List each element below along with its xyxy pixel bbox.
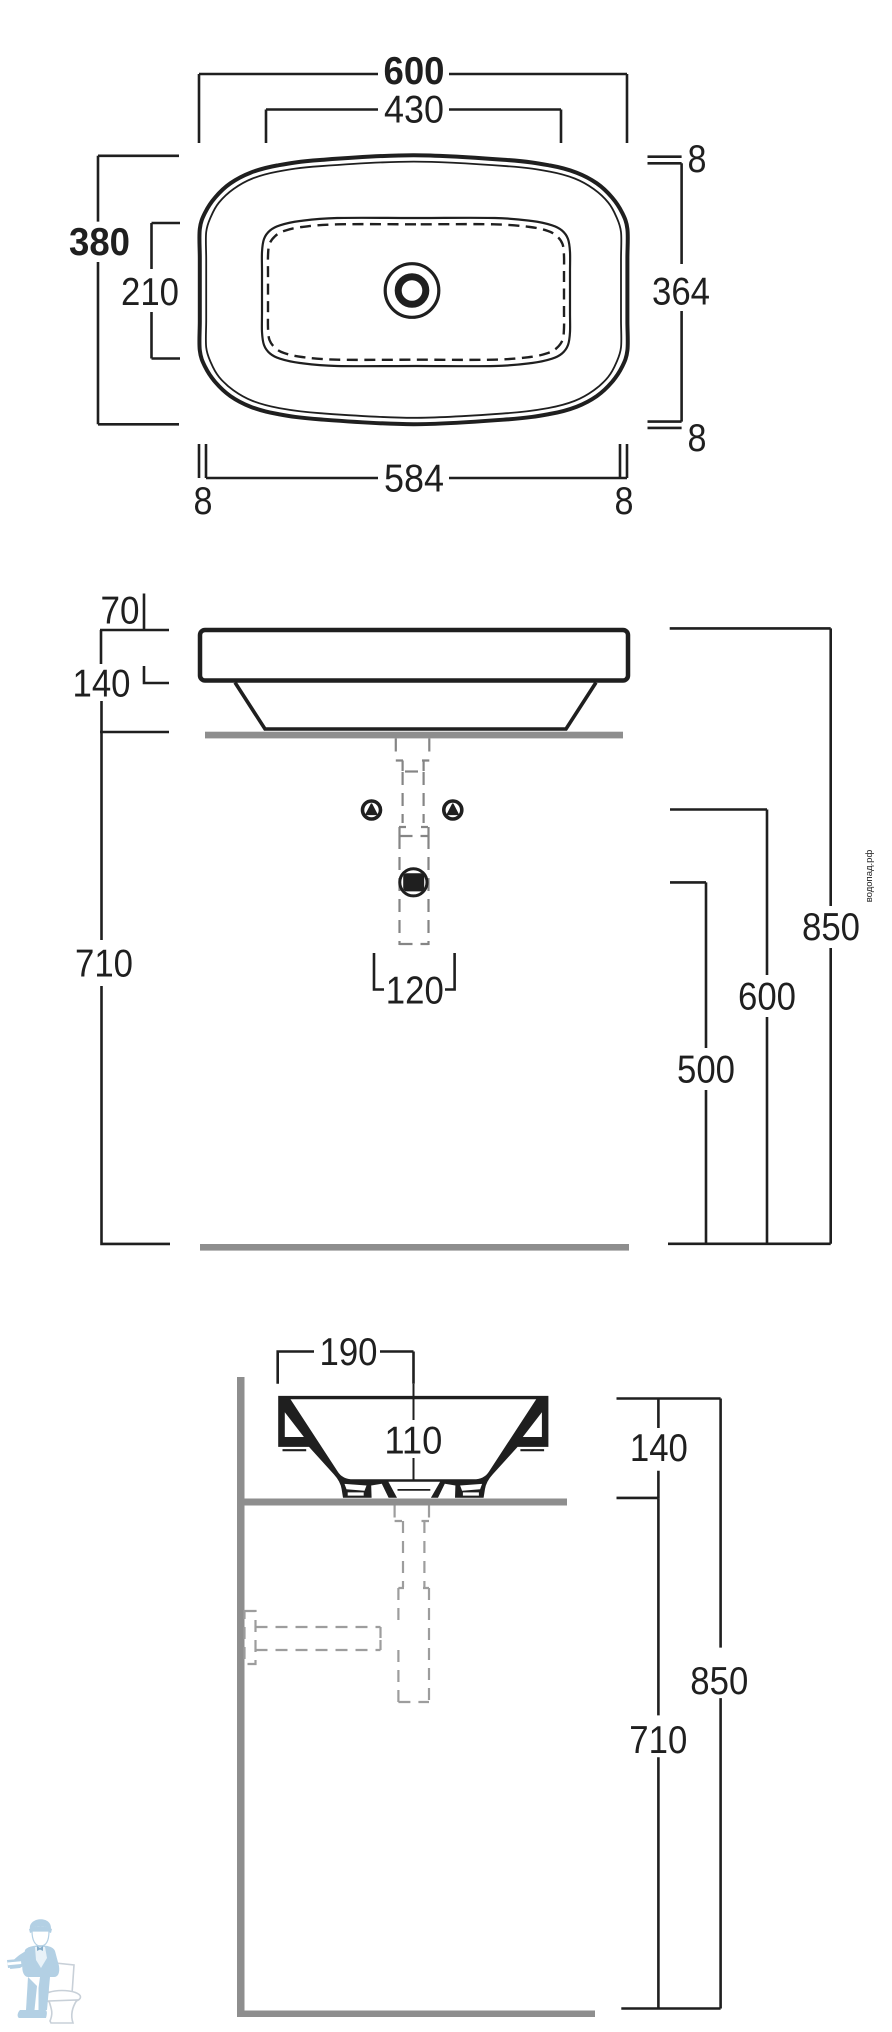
dim 850 line bbox=[670, 628, 831, 1243]
svg-text:70: 70 bbox=[101, 590, 140, 633]
counter bar (side) bbox=[245, 1499, 568, 1506]
dim 120 bbox=[374, 953, 455, 990]
dim 210 bbox=[152, 223, 181, 359]
tick at basin top left bbox=[100, 629, 169, 632]
bottom tick (front) bbox=[668, 1243, 831, 1246]
faucet hole symbol right bbox=[444, 801, 462, 819]
dim 710 line bbox=[100, 701, 170, 1244]
plumber logo bbox=[7, 1919, 81, 2023]
right leg bbox=[39, 1977, 51, 2010]
right sub-flange line bbox=[520, 1449, 544, 1451]
left leg bbox=[26, 1977, 37, 2010]
basin side silhouette bbox=[278, 1396, 548, 1498]
svg-text:140: 140 bbox=[630, 1427, 688, 1470]
basin trapezoid body bbox=[235, 683, 596, 730]
dim 600 line bbox=[199, 74, 627, 143]
svg-text:600: 600 bbox=[738, 976, 796, 1019]
8 marker top right bbox=[648, 157, 682, 164]
left sub-flange line bbox=[283, 1449, 307, 1451]
basin top rect bbox=[200, 630, 628, 681]
drain symbol front bbox=[400, 869, 427, 896]
svg-text:8: 8 bbox=[688, 417, 707, 460]
inner bowl solid outline bbox=[262, 218, 570, 366]
inner bowl dashed line bbox=[268, 224, 564, 360]
svg-text:500: 500 bbox=[677, 1049, 735, 1092]
left shoe bbox=[18, 2010, 35, 2018]
svg-text:водопад.рф: водопад.рф bbox=[864, 850, 875, 903]
svg-text:210: 210 bbox=[121, 271, 179, 314]
centerline of drain bbox=[413, 1384, 415, 1480]
svg-text:710: 710 bbox=[629, 1719, 687, 1762]
shirt patch bbox=[35, 1947, 47, 1968]
bow tie bbox=[37, 1946, 43, 1951]
faucet hole symbol left bbox=[363, 801, 381, 819]
drain inner ring bbox=[398, 277, 426, 305]
drain pipes dashed (side) bbox=[245, 1506, 430, 1704]
dim 584 bbox=[199, 444, 627, 478]
dim 500 line bbox=[670, 882, 706, 1243]
left arm bbox=[10, 1951, 33, 1969]
svg-text:120: 120 bbox=[386, 970, 444, 1013]
plumber face bbox=[32, 1931, 49, 1946]
floor bar (side) bbox=[237, 2011, 595, 2018]
plumber jacket bbox=[22, 1945, 59, 1977]
plumber cap bbox=[30, 1919, 51, 1929]
dim 710 (side) bbox=[657, 1498, 660, 2008]
svg-text:850: 850 bbox=[690, 1660, 748, 1703]
toilet base bbox=[49, 2000, 77, 2023]
8 marker bottom right bbox=[648, 422, 682, 428]
svg-text:8: 8 bbox=[194, 480, 213, 523]
right shoe bbox=[31, 2010, 47, 2018]
svg-text:710: 710 bbox=[75, 943, 133, 986]
svg-text:364: 364 bbox=[652, 271, 710, 314]
svg-text:584: 584 bbox=[384, 458, 444, 501]
svg-text:140: 140 bbox=[73, 663, 131, 706]
dim 364 bbox=[680, 163, 683, 421]
dim 430 line bbox=[266, 110, 561, 144]
svg-text:8: 8 bbox=[615, 480, 634, 523]
basin outer rim (bold) bbox=[199, 155, 627, 424]
toilet tank bbox=[46, 1962, 74, 1994]
svg-text:190: 190 bbox=[320, 1331, 378, 1374]
svg-text:8: 8 bbox=[688, 138, 707, 181]
countertop bar bbox=[205, 732, 623, 739]
bottom tick (side) bbox=[621, 2007, 720, 2010]
dim 850 (side) bbox=[719, 1399, 722, 2009]
basin outer rim inner thin line bbox=[206, 162, 622, 418]
dim 140 bracket bbox=[101, 630, 169, 683]
drain outer circle bbox=[385, 264, 439, 318]
svg-text:600: 600 bbox=[384, 50, 445, 93]
dim 140 (side) bbox=[617, 1399, 721, 1499]
drain pipe dashed (front) bbox=[396, 739, 430, 946]
dim 190 bbox=[278, 1352, 414, 1384]
svg-text:380: 380 bbox=[69, 221, 130, 264]
dim 600 line (front) bbox=[670, 810, 767, 1244]
dim 70 extension line bbox=[143, 594, 146, 631]
svg-text:430: 430 bbox=[384, 89, 444, 132]
dim 380 bbox=[98, 156, 179, 425]
toilet bowl rim bbox=[44, 1991, 81, 2004]
wall bar bbox=[237, 1377, 245, 2016]
floor bar (front) bbox=[200, 1244, 629, 1251]
svg-text:110: 110 bbox=[384, 1420, 442, 1463]
wrench bbox=[7, 1959, 26, 1969]
svg-text:850: 850 bbox=[802, 906, 860, 949]
basin side foot inner line bbox=[398, 1489, 431, 1491]
